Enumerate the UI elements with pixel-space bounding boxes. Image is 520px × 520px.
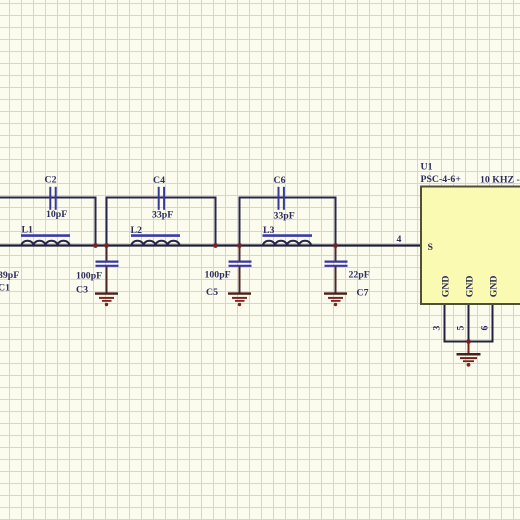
svg-text:5: 5 (455, 326, 466, 331)
wire pin 5 to ground bus (468, 305, 470, 342)
svg-text:10 KHZ - 100 MHZ: 10 KHZ - 100 MHZ (480, 174, 520, 185)
node junction C2/main (93, 243, 98, 248)
capacitor C1 39pF (symbol off-canvas left) (0, 270, 19, 294)
capacitor C4 33pF (152, 175, 173, 221)
inductor L3 (263, 225, 313, 246)
wire C2 bypass loop (0, 198, 96, 246)
inductor L2 (131, 225, 181, 246)
ground (below C3) (95, 294, 118, 307)
svg-text:C4: C4 (153, 175, 165, 186)
capacitor C6 33pF (274, 175, 295, 222)
svg-text:C5: C5 (206, 287, 218, 298)
capacitor C2 10pF (45, 175, 68, 220)
node junction C4/main (213, 243, 218, 248)
svg-text:GND: GND (488, 276, 499, 298)
op-amp U1 PSC-4-6+ component body (421, 162, 520, 305)
svg-text:C3: C3 (76, 285, 88, 296)
wire pin 6 to ground bus (469, 305, 493, 342)
node junction ground bus (466, 339, 471, 344)
svg-text:S: S (428, 242, 434, 253)
wire ground stem (U1) (468, 342, 470, 354)
svg-text:33pF: 33pF (152, 210, 173, 221)
svg-text:L1: L1 (22, 225, 34, 236)
svg-text:10pF: 10pF (46, 209, 67, 220)
capacitor C3 100pF shunt branch (76, 246, 119, 296)
wire pin 3 to ground bus (445, 305, 469, 342)
svg-text:39pF: 39pF (0, 270, 19, 281)
wire main line (input to U1 pin 4) (0, 244, 421, 246)
svg-text:C2: C2 (45, 175, 57, 186)
ground (below C5) (228, 294, 251, 307)
svg-text:GND: GND (464, 276, 475, 298)
svg-text:U1: U1 (421, 162, 433, 173)
ground (below U1) (457, 354, 481, 366)
node junction C6/C7/main (333, 243, 338, 248)
svg-text:100pF: 100pF (205, 270, 231, 281)
svg-text:C6: C6 (274, 175, 286, 186)
capacitor C5 100pF shunt branch (205, 246, 252, 299)
node junction C3/C4/main (104, 243, 109, 248)
svg-text:4: 4 (397, 234, 402, 245)
ground (below C7) (324, 294, 347, 307)
svg-text:6: 6 (479, 326, 490, 331)
svg-text:22pF: 22pF (349, 270, 370, 281)
capacitor C7 22pF shunt branch (325, 246, 370, 299)
svg-text:PSC-4-6+: PSC-4-6+ (421, 174, 462, 185)
node junction C5/C6/main (237, 243, 242, 248)
svg-text:33pF: 33pF (274, 211, 295, 222)
svg-text:C7: C7 (357, 288, 369, 299)
svg-text:100pF: 100pF (76, 271, 102, 282)
svg-text:C1: C1 (0, 283, 10, 294)
svg-text:GND: GND (440, 276, 451, 298)
svg-text:3: 3 (431, 326, 442, 331)
inductor L1 (21, 225, 70, 246)
wire C6 bypass loop (240, 198, 336, 246)
wire C4 bypass loop (107, 198, 216, 246)
